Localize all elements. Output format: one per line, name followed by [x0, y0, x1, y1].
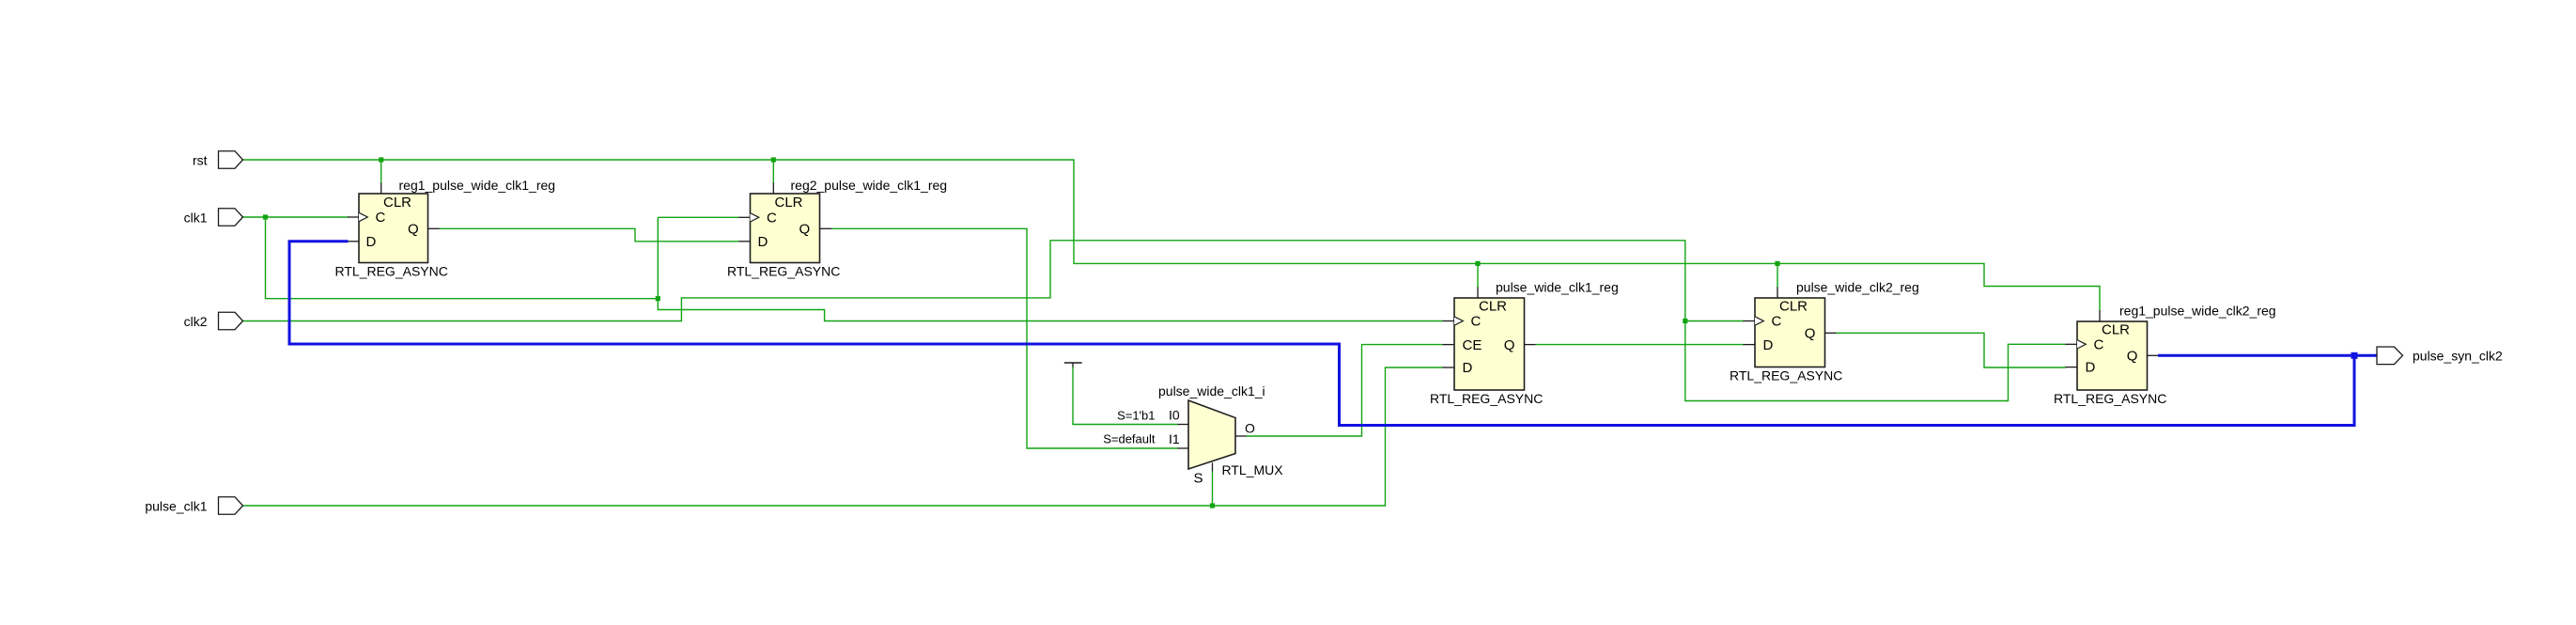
svg-text:C: C [2094, 337, 2104, 353]
svg-text:C: C [376, 210, 386, 226]
svg-text:clk2: clk2 [184, 314, 208, 329]
svg-text:CLR: CLR [2102, 322, 2130, 338]
svg-text:reg1_pulse_wide_clk2_reg: reg1_pulse_wide_clk2_reg [2119, 304, 2276, 319]
svg-text:RTL_REG_ASYNC: RTL_REG_ASYNC [1430, 391, 1543, 406]
svg-text:I1: I1 [1169, 431, 1180, 446]
svg-text:CLR: CLR [383, 195, 411, 211]
svg-text:C: C [1471, 314, 1482, 330]
svg-text:Q: Q [2127, 349, 2138, 365]
svg-text:D: D [1763, 337, 1774, 353]
svg-text:RTL_MUX: RTL_MUX [1222, 462, 1284, 477]
svg-text:S: S [1194, 471, 1203, 487]
svg-text:RTL_REG_ASYNC: RTL_REG_ASYNC [2054, 391, 2166, 406]
svg-text:C: C [767, 211, 777, 227]
svg-text:pulse_wide_clk1_i: pulse_wide_clk1_i [1158, 383, 1265, 398]
svg-text:S=1'b1: S=1'b1 [1117, 409, 1155, 423]
svg-text:CLR: CLR [775, 195, 803, 211]
svg-text:Q: Q [799, 222, 811, 238]
svg-text:pulse_wide_clk1_reg: pulse_wide_clk1_reg [1496, 280, 1619, 295]
svg-text:pulse_wide_clk2_reg: pulse_wide_clk2_reg [1796, 280, 1919, 295]
svg-text:S=default: S=default [1103, 432, 1156, 446]
svg-text:Q: Q [1805, 326, 1816, 342]
svg-text:Q: Q [408, 222, 419, 238]
svg-text:D: D [758, 234, 768, 250]
svg-text:RTL_REG_ASYNC: RTL_REG_ASYNC [1730, 368, 1842, 383]
svg-text:clk1: clk1 [184, 210, 208, 225]
svg-text:C: C [1772, 314, 1782, 330]
svg-text:O: O [1245, 421, 1255, 436]
svg-text:Q: Q [1504, 337, 1515, 353]
svg-text:I0: I0 [1169, 408, 1180, 423]
svg-text:CLR: CLR [1479, 299, 1507, 315]
svg-text:pulse_clk1: pulse_clk1 [145, 498, 207, 513]
svg-text:D: D [2086, 360, 2096, 376]
svg-text:CE: CE [1463, 337, 1482, 353]
svg-text:rst: rst [193, 152, 208, 167]
svg-text:D: D [366, 234, 377, 250]
svg-text:pulse_syn_clk2: pulse_syn_clk2 [2413, 349, 2503, 364]
svg-text:reg2_pulse_wide_clk1_reg: reg2_pulse_wide_clk1_reg [791, 178, 948, 193]
svg-text:D: D [1463, 360, 1473, 376]
svg-text:CLR: CLR [1779, 299, 1808, 315]
svg-text:RTL_REG_ASYNC: RTL_REG_ASYNC [727, 263, 840, 278]
svg-text:RTL_REG_ASYNC: RTL_REG_ASYNC [335, 263, 448, 278]
svg-text:reg1_pulse_wide_clk1_reg: reg1_pulse_wide_clk1_reg [399, 178, 556, 193]
